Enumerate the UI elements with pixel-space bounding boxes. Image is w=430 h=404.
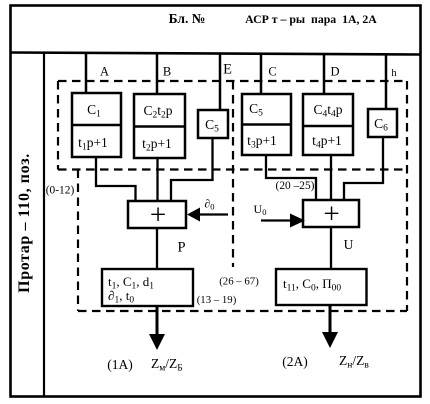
- svg-text:E: E: [223, 62, 232, 78]
- left strip divider: [43, 53, 45, 396]
- wire C6 to summer2: [344, 137, 383, 200]
- dashed left lower: [77, 170, 79, 312]
- wire B: [156, 53, 159, 94]
- block C5 small left: [198, 110, 228, 138]
- block C4t4p/t4p+1: [303, 94, 353, 155]
- svg-text:Бл. №: Бл. №: [169, 11, 206, 26]
- svg-text:(2А): (2А): [282, 354, 308, 369]
- header separator: [10, 53, 420, 55]
- summer U2: [303, 200, 359, 227]
- svg-text:C: C: [268, 65, 276, 79]
- output arrow 2A: [329, 305, 332, 334]
- dashed boundary: [58, 81, 407, 311]
- svg-text:АСР т – ры пара 1А, 2А: АСР т – ры пара 1А, 2А: [245, 12, 377, 26]
- wire h: [385, 53, 388, 109]
- dashed top: [58, 80, 407, 82]
- svg-text:(20 –25): (20 –25): [276, 180, 315, 192]
- dashed left upper: [57, 81, 59, 170]
- dashed mid horizontal: [58, 168, 407, 170]
- wire P: [156, 228, 158, 269]
- svg-text:Протар – 110, поз.: Протар – 110, поз.: [16, 153, 33, 293]
- dashed right: [406, 81, 408, 311]
- block C1/t1p+1: [72, 93, 121, 157]
- wire E: [219, 53, 222, 110]
- svg-text:+: +: [150, 199, 166, 231]
- svg-text:B: B: [163, 65, 171, 79]
- wire t2p+1 to summer1: [156, 158, 158, 201]
- block t1,C1,d1: [102, 269, 193, 306]
- wire A: [85, 53, 88, 93]
- svg-text:A: A: [100, 65, 109, 79]
- dashed middle divider: [232, 81, 234, 267]
- wire t1p+1 to summer1: [96, 157, 136, 201]
- svg-text:C4t4p: C4t4p: [313, 102, 342, 120]
- svg-text:D: D: [330, 65, 339, 79]
- dashed bottom: [78, 310, 407, 312]
- wire t4p+1 to summer2: [330, 155, 332, 200]
- input wires: [86, 53, 386, 110]
- output arrow 1A: [156, 306, 159, 336]
- block C6 small right: [368, 109, 397, 137]
- input U0 arrow: [261, 219, 292, 221]
- block C5/t3p+1: [242, 94, 291, 155]
- svg-text:U: U: [344, 237, 354, 252]
- summer U1: [128, 201, 186, 228]
- svg-text:+: +: [323, 198, 339, 230]
- wire t3p+1 to summer2: [266, 155, 316, 200]
- svg-text:C2t2p: C2t2p: [143, 103, 172, 121]
- wire U: [330, 227, 332, 269]
- block t11,C0,P00: [276, 269, 367, 305]
- input d0 arrow: [199, 213, 228, 215]
- wire D: [323, 53, 326, 94]
- svg-text:(26 – 67): (26 – 67): [219, 276, 259, 288]
- svg-text:h: h: [391, 68, 397, 79]
- wire C5 to summer1: [171, 138, 213, 201]
- svg-text:P: P: [177, 240, 185, 256]
- svg-text:(0-12): (0-12): [46, 185, 75, 197]
- svg-text:(13 – 19): (13 – 19): [197, 294, 237, 306]
- wire C: [260, 53, 263, 94]
- svg-text:(1А): (1А): [107, 357, 133, 372]
- block C2t2p/t2p+1: [134, 94, 185, 158]
